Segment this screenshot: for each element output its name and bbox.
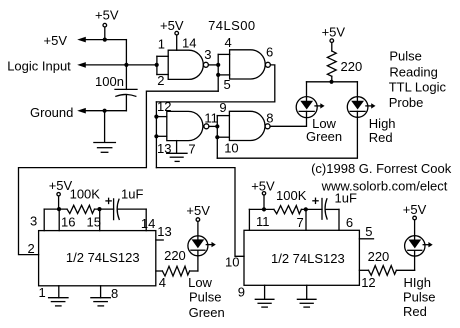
svg-text:1/2 74LS123: 1/2 74LS123 — [271, 251, 345, 266]
svg-text:11: 11 — [256, 214, 270, 229]
svg-text:Green: Green — [189, 305, 225, 320]
svg-text:7: 7 — [297, 215, 304, 230]
ground (U3 pin 9) — [255, 299, 274, 307]
wire LED anode rail — [307, 80, 358, 101]
svg-text:+5V: +5V — [251, 179, 275, 194]
svg-text:1uF: 1uF — [335, 191, 357, 206]
svg-text:6: 6 — [346, 215, 353, 230]
svg-text:1: 1 — [39, 285, 46, 300]
wire gate U1C output to gate U1D inputs — [209, 116, 230, 159]
svg-text:12: 12 — [157, 99, 171, 114]
svg-text:+5V: +5V — [44, 33, 68, 48]
op... gate U1A NAND (pins 1,2,3) — [157, 50, 209, 79]
wire R5 to LED D4 — [414, 251, 416, 271]
wire green LED cathode to gate U1D output — [270, 111, 306, 126]
LED D4 High Pulse Red — [405, 236, 433, 256]
wire gate U1C pin7 to ground — [176, 141, 178, 154]
svg-text:7: 7 — [188, 141, 195, 156]
pin 5 stub — [359, 238, 373, 240]
label High Red — [369, 116, 396, 145]
svg-text:3: 3 — [204, 47, 211, 62]
svg-text:+5V: +5V — [322, 25, 346, 40]
svg-text:4: 4 — [159, 275, 166, 290]
svg-text:Low: Low — [188, 275, 212, 290]
ground (gate U1C) — [167, 153, 187, 161]
svg-text:+5V: +5V — [95, 8, 119, 23]
resistor R3 220 — [156, 248, 198, 276]
wire R3 to LED D3 — [197, 251, 199, 271]
svg-text:5: 5 — [365, 224, 372, 239]
svg-text:1uF: 1uF — [121, 187, 143, 202]
label Low Green — [306, 116, 342, 144]
svg-text:Pulse: Pulse — [389, 49, 422, 64]
capacitor C3 1uF — [313, 191, 357, 220]
LED D3 Low Pulse Green — [188, 236, 216, 256]
svg-text:14: 14 — [141, 216, 155, 231]
svg-text:100n: 100n — [95, 74, 124, 89]
svg-text:2: 2 — [157, 73, 164, 88]
svg-text:Probe: Probe — [389, 95, 424, 110]
svg-text:+5V: +5V — [186, 203, 210, 218]
node Ground connector — [30, 105, 86, 120]
wire gate U1C input rail to U2 pin 10 — [156, 168, 244, 257]
svg-text:220: 220 — [368, 249, 390, 264]
svg-text:12: 12 — [361, 275, 375, 290]
svg-text:6: 6 — [266, 45, 273, 60]
svg-text:11: 11 — [204, 111, 218, 126]
svg-text:14: 14 — [182, 36, 196, 51]
svg-text:3: 3 — [30, 214, 37, 229]
wire U2 pin8 to ground — [100, 286, 102, 298]
wire red LED cathode to gate U1D input node — [217, 111, 357, 158]
IC U3 1/2 74LS123 (right) — [244, 230, 359, 285]
label HIgh Pulse Red — [403, 275, 436, 319]
label title Pulse Reading TTL Logic Probe — [389, 49, 447, 111]
svg-text:2: 2 — [28, 241, 35, 256]
resistor R5 220 — [359, 249, 414, 275]
svg-text:9: 9 — [219, 100, 226, 115]
node +5V LED supply terminal — [322, 25, 346, 43]
node +5V supply terminal (top left) — [95, 8, 119, 28]
wire U3 timing rail — [249, 207, 339, 230]
wire +5V terminal to rail — [104, 27, 106, 40]
svg-text:13: 13 — [157, 224, 171, 239]
ground (input section) — [94, 143, 116, 153]
capacitor C2 1uF — [106, 187, 146, 220]
svg-text:+5V: +5V — [403, 202, 427, 217]
svg-text:Reading: Reading — [389, 64, 437, 79]
wire logic input to gate U1A — [85, 63, 159, 67]
svg-text:9: 9 — [238, 284, 245, 299]
svg-text:(c)1998 G. Forrest Cook: (c)1998 G. Forrest Cook — [311, 161, 452, 176]
svg-text:4: 4 — [225, 35, 232, 50]
wire U3 pin8/gnd to ground — [306, 285, 308, 299]
svg-text:10: 10 — [224, 140, 238, 155]
node +5V pin 14 terminal — [160, 18, 184, 35]
resistor R4 100K — [274, 188, 307, 214]
wire gate U1A output to U1B inputs — [208, 54, 229, 91]
svg-text:High: High — [369, 116, 396, 131]
wire gate U1C input rail — [154, 102, 167, 168]
svg-text:+5V: +5V — [160, 18, 184, 33]
gate U1B NAND (pins 4,5,6) — [230, 50, 271, 79]
wire gate U1A/U1B junction to U2 pin 2 — [19, 91, 219, 254]
svg-text:74LS00: 74LS00 — [208, 18, 256, 33]
resistor R1 220 (LED supply) — [327, 43, 362, 82]
node +5V terminal (U3 timing) — [251, 179, 275, 210]
svg-text:8: 8 — [266, 110, 273, 125]
ground (U2 pin 8) — [91, 298, 110, 306]
svg-text:HIgh: HIgh — [404, 275, 431, 290]
svg-text:15: 15 — [87, 215, 101, 230]
svg-text:Pulse: Pulse — [403, 290, 436, 305]
node Logic Input connector — [7, 58, 86, 73]
wire U2 timing rail — [44, 207, 146, 231]
svg-text:10: 10 — [225, 255, 239, 270]
LED D1 Low Green — [296, 97, 324, 118]
svg-text:8: 8 — [111, 286, 118, 301]
LED D2 High Red — [347, 97, 375, 118]
svg-text:1/2 74LS123: 1/2 74LS123 — [66, 250, 140, 265]
gate U1C NAND (pins 12,13,11) — [167, 111, 209, 140]
svg-text:220: 220 — [341, 59, 363, 74]
svg-text:Red: Red — [403, 304, 427, 319]
svg-text:16: 16 — [61, 215, 75, 230]
wire U3 pin9 to ground — [264, 285, 266, 299]
wire +5V rail — [85, 38, 127, 65]
gate U1D NAND (pins 9,10,8) — [229, 111, 270, 140]
svg-text:220: 220 — [164, 248, 186, 263]
svg-text:5: 5 — [224, 77, 231, 92]
svg-text:Red: Red — [369, 130, 393, 145]
svg-text:Ground: Ground — [30, 105, 73, 120]
wire pin 14 to gate U1A — [176, 35, 178, 50]
label Low Pulse Green — [188, 275, 225, 320]
svg-text:1: 1 — [158, 36, 165, 51]
svg-text:100K: 100K — [276, 188, 307, 203]
wire U2 pin1 to ground — [58, 286, 60, 298]
resistor R2 100K — [67, 187, 100, 214]
ground (U3 second) — [297, 299, 316, 307]
node +5V terminal (LED D3) — [186, 203, 210, 239]
node +5V terminal (LED D4) — [403, 202, 427, 239]
svg-text:100K: 100K — [70, 187, 101, 202]
pin 13 stub — [156, 239, 163, 241]
node +5V left connector — [44, 33, 86, 48]
svg-text:Green: Green — [306, 129, 342, 144]
svg-text:TTL Logic: TTL Logic — [389, 79, 447, 94]
IC U2 1/2 74LS123 (left) — [39, 231, 156, 286]
capacitor C1 100n — [95, 65, 137, 111]
wire ground rail — [85, 109, 127, 142]
wire gate U1B output to gate U1C inputs — [156, 65, 274, 102]
svg-text:Logic Input: Logic Input — [7, 58, 71, 73]
ground (U2 pin 1) — [49, 298, 68, 306]
node +5V terminal (U2 timing) — [49, 178, 73, 209]
svg-text:Pulse: Pulse — [189, 290, 222, 305]
